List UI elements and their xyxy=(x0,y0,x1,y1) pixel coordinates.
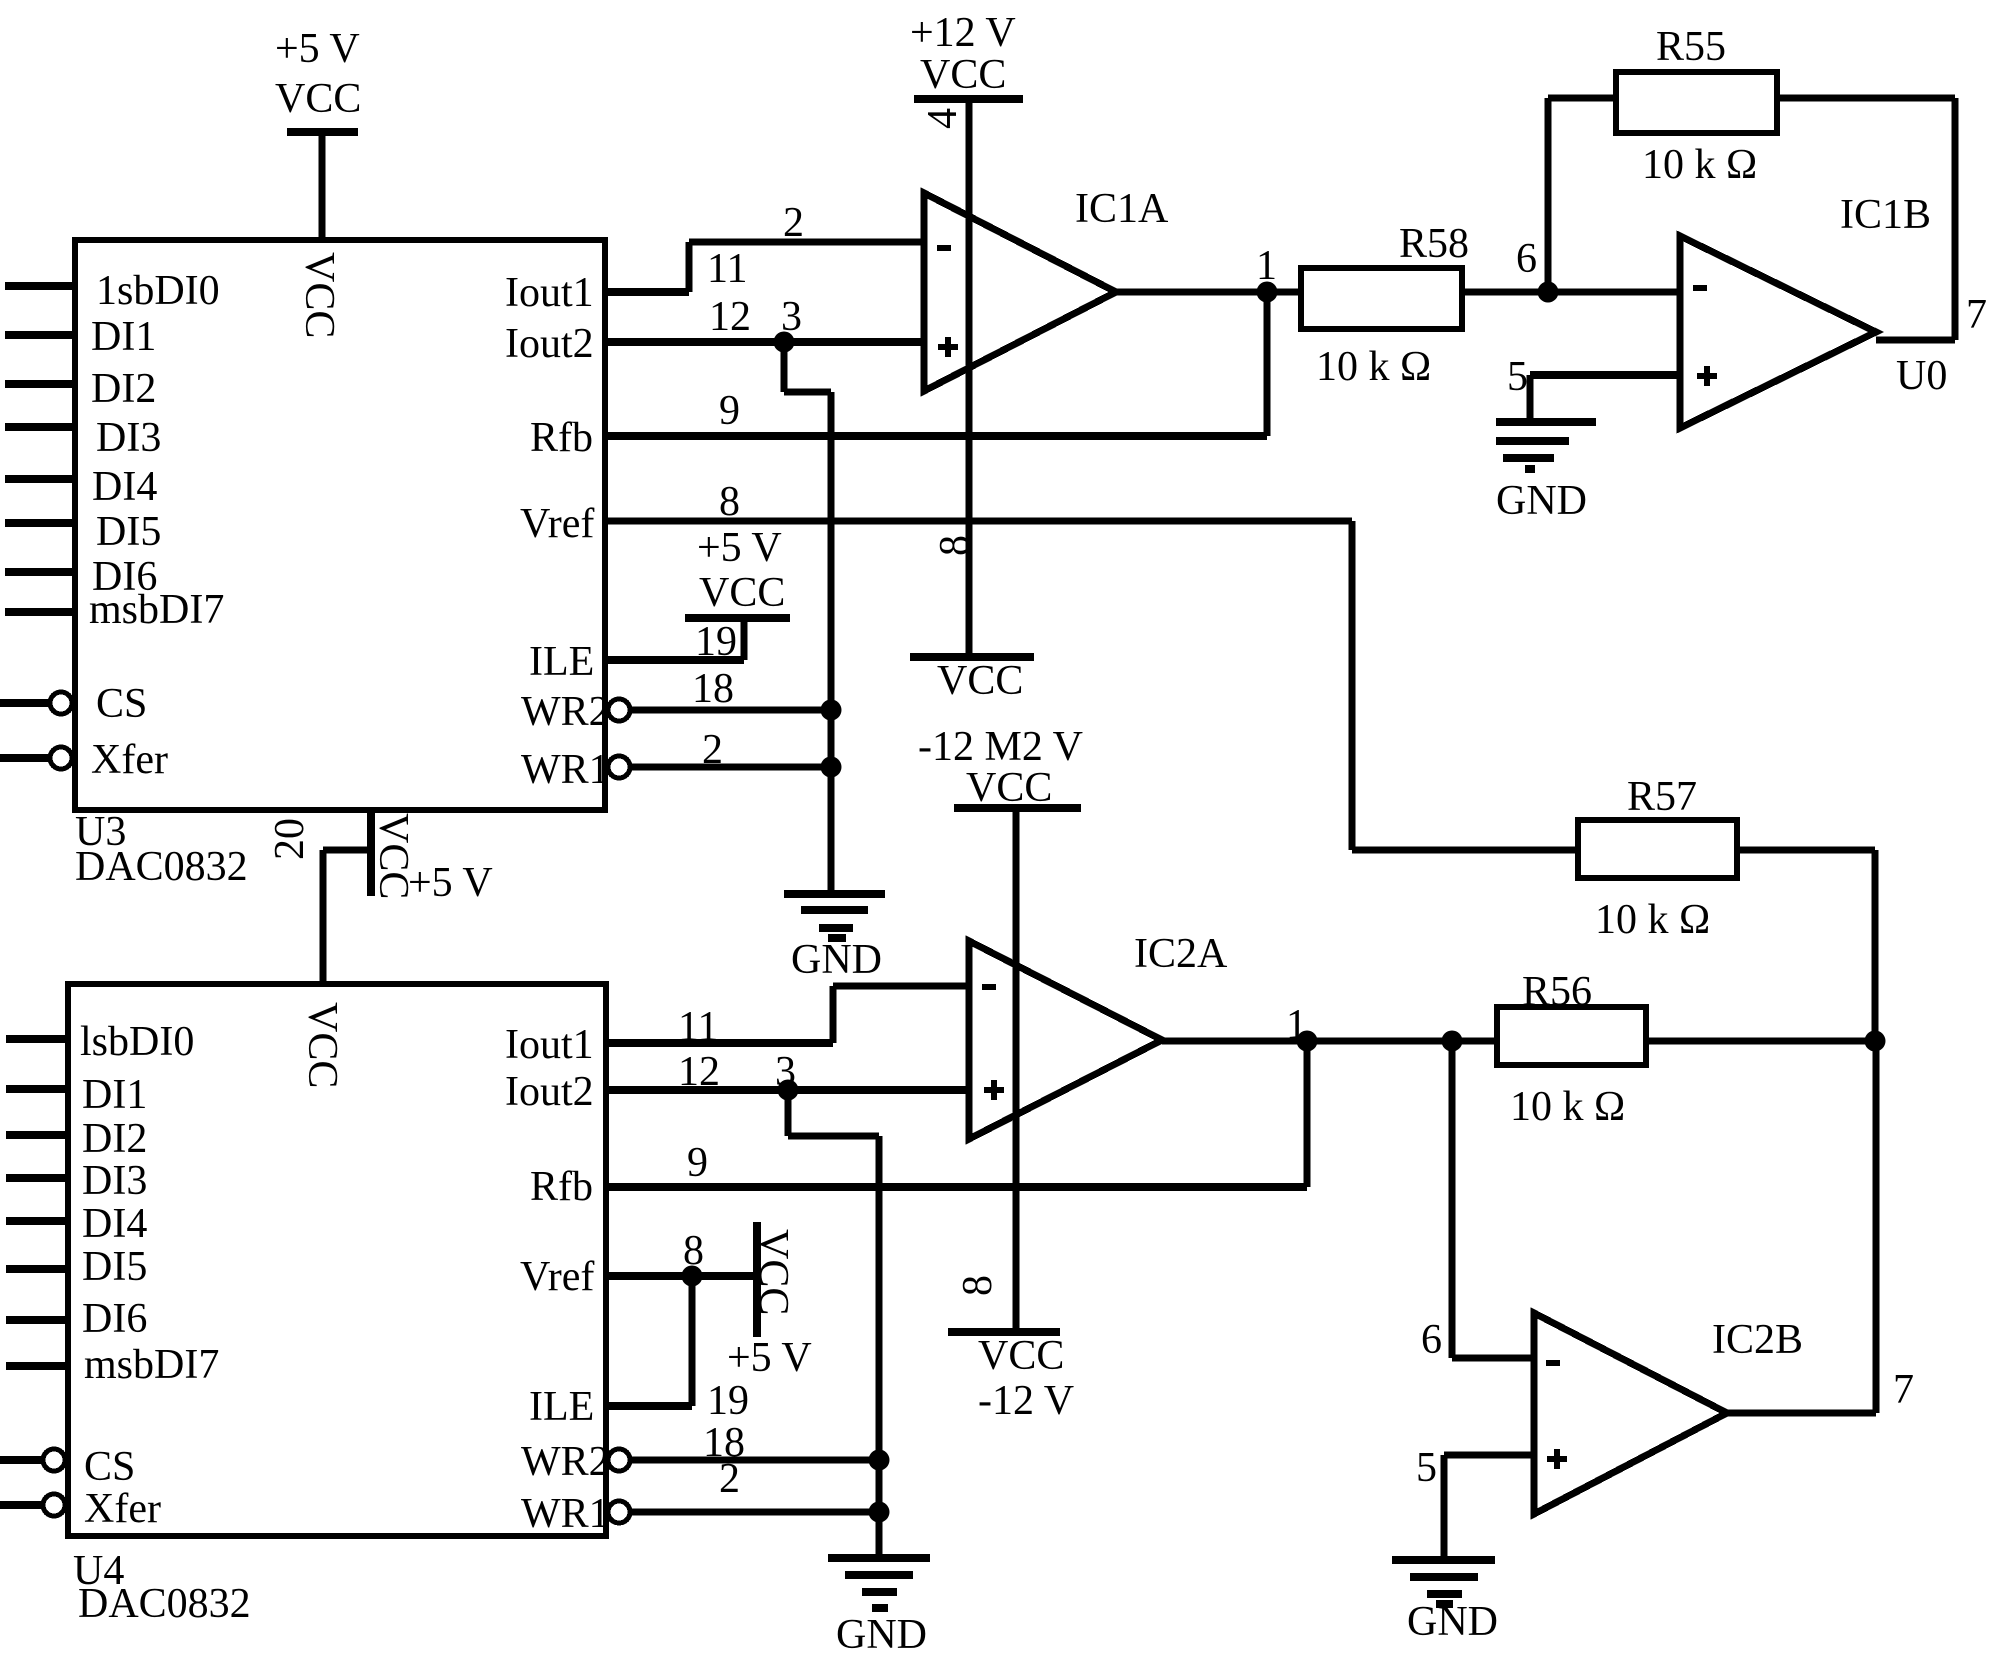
svg-text:VCC: VCC xyxy=(920,52,1006,98)
svg-text:Iout1: Iout1 xyxy=(505,270,594,316)
svg-text:CS: CS xyxy=(84,1444,135,1490)
svg-text:DI1: DI1 xyxy=(91,314,156,360)
svg-text:VCC: VCC xyxy=(370,813,416,899)
svg-text:8: 8 xyxy=(932,535,978,556)
svg-text:DAC0832: DAC0832 xyxy=(75,844,248,890)
svg-text:VCC: VCC xyxy=(299,1002,345,1088)
svg-text:VCC: VCC xyxy=(966,765,1052,811)
svg-text:8: 8 xyxy=(955,1275,1001,1296)
svg-text:8: 8 xyxy=(683,1228,704,1274)
svg-text:9: 9 xyxy=(719,388,740,434)
svg-text:1: 1 xyxy=(1256,243,1277,289)
svg-text:10 k Ω: 10 k Ω xyxy=(1642,142,1757,188)
svg-text:WR1: WR1 xyxy=(521,1491,610,1537)
svg-text:DI4: DI4 xyxy=(92,464,157,510)
svg-text:DAC0832: DAC0832 xyxy=(78,1581,251,1627)
svg-text:DI4: DI4 xyxy=(82,1201,147,1247)
svg-text:4: 4 xyxy=(920,108,966,129)
svg-text:1: 1 xyxy=(1286,1002,1307,1048)
svg-text:VCC: VCC xyxy=(699,570,785,616)
svg-text:3: 3 xyxy=(775,1049,796,1095)
svg-text:DI1: DI1 xyxy=(82,1072,147,1118)
svg-text:10 k Ω: 10 k Ω xyxy=(1510,1084,1625,1130)
svg-text:IC2A: IC2A xyxy=(1134,931,1228,977)
svg-text:2: 2 xyxy=(719,1456,740,1502)
svg-text:+5 V: +5 V xyxy=(275,26,360,72)
svg-text:Vref: Vref xyxy=(520,501,594,547)
svg-text:WR2: WR2 xyxy=(521,689,610,735)
svg-text:Iout2: Iout2 xyxy=(505,321,594,367)
svg-text:WR1: WR1 xyxy=(521,747,610,793)
svg-text:IC1A: IC1A xyxy=(1075,186,1169,232)
svg-text:20: 20 xyxy=(267,818,313,860)
svg-text:5: 5 xyxy=(1507,354,1528,400)
svg-text:DI3: DI3 xyxy=(82,1158,147,1204)
svg-text:GND: GND xyxy=(836,1612,927,1656)
svg-text:Vref: Vref xyxy=(520,1254,594,1300)
svg-text:VCC: VCC xyxy=(750,1229,796,1315)
svg-text:DI5: DI5 xyxy=(82,1244,147,1290)
svg-text:12: 12 xyxy=(709,294,751,340)
svg-text:5: 5 xyxy=(1416,1445,1437,1491)
svg-text:10 k Ω: 10 k Ω xyxy=(1595,897,1710,943)
svg-text:DI5: DI5 xyxy=(96,509,161,555)
svg-text:7: 7 xyxy=(1966,292,1987,338)
svg-text:DI3: DI3 xyxy=(96,415,161,461)
svg-text:-12 M2 V: -12 M2 V xyxy=(918,724,1083,770)
svg-text:Xfer: Xfer xyxy=(84,1486,161,1532)
svg-text:-12 V: -12 V xyxy=(978,1378,1074,1424)
svg-text:msbDI7: msbDI7 xyxy=(84,1342,219,1388)
svg-text:DI2: DI2 xyxy=(91,366,156,412)
svg-text:+5 V: +5 V xyxy=(727,1335,812,1381)
svg-text:VCC: VCC xyxy=(275,76,361,122)
svg-text:DI2: DI2 xyxy=(82,1116,147,1162)
svg-text:19: 19 xyxy=(707,1378,749,1424)
svg-text:6: 6 xyxy=(1516,236,1537,282)
svg-text:12: 12 xyxy=(678,1049,720,1095)
svg-text:3: 3 xyxy=(781,294,802,340)
svg-text:Iout1: Iout1 xyxy=(505,1022,594,1068)
svg-text:GND: GND xyxy=(1407,1599,1498,1645)
svg-text:Rfb: Rfb xyxy=(530,1164,593,1210)
svg-text:10 k Ω: 10 k Ω xyxy=(1316,344,1431,390)
svg-text:+5 V: +5 V xyxy=(408,860,493,906)
svg-text:VCC: VCC xyxy=(937,658,1023,704)
svg-text:GND: GND xyxy=(791,937,882,983)
svg-text:2: 2 xyxy=(783,200,804,246)
svg-text:Iout2: Iout2 xyxy=(505,1069,594,1115)
svg-text:1sbDI0: 1sbDI0 xyxy=(96,268,220,314)
svg-text:8: 8 xyxy=(719,479,740,525)
svg-text:R55: R55 xyxy=(1656,24,1726,70)
svg-text:lsbDI0: lsbDI0 xyxy=(80,1019,194,1065)
svg-text:R57: R57 xyxy=(1627,774,1697,820)
svg-text:ILE: ILE xyxy=(529,1384,594,1430)
svg-text:DI6: DI6 xyxy=(82,1296,147,1342)
svg-text:U0: U0 xyxy=(1896,353,1947,399)
svg-text:+12 V: +12 V xyxy=(910,10,1016,56)
svg-text:7: 7 xyxy=(1893,1367,1914,1413)
svg-text:WR2: WR2 xyxy=(521,1439,610,1485)
svg-text:11: 11 xyxy=(678,1004,718,1050)
svg-text:11: 11 xyxy=(707,246,747,292)
svg-text:9: 9 xyxy=(687,1140,708,1186)
svg-text:6: 6 xyxy=(1421,1317,1442,1363)
svg-text:CS: CS xyxy=(96,681,147,727)
svg-text:IC2B: IC2B xyxy=(1712,1317,1803,1363)
svg-text:ILE: ILE xyxy=(529,639,594,685)
svg-text:IC1B: IC1B xyxy=(1840,192,1931,238)
svg-text:Xfer: Xfer xyxy=(91,737,168,783)
svg-text:18: 18 xyxy=(692,666,734,712)
svg-text:R56: R56 xyxy=(1522,969,1592,1015)
svg-text:Rfb: Rfb xyxy=(530,415,593,461)
svg-text:R58: R58 xyxy=(1399,221,1469,267)
svg-text:msbDI7: msbDI7 xyxy=(89,587,224,633)
svg-text:+5 V: +5 V xyxy=(697,525,782,571)
svg-text:GND: GND xyxy=(1496,478,1587,524)
svg-text:VCC: VCC xyxy=(296,252,342,338)
svg-text:VCC: VCC xyxy=(978,1333,1064,1379)
svg-text:19: 19 xyxy=(695,619,737,665)
svg-text:2: 2 xyxy=(702,727,723,773)
